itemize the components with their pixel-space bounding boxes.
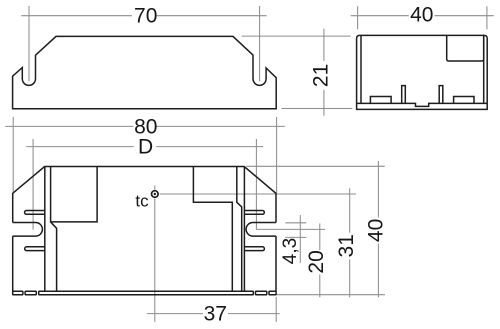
- svg-text:40: 40: [365, 219, 388, 242]
- svg-text:tc: tc: [135, 191, 149, 210]
- svg-text:21: 21: [310, 64, 333, 87]
- svg-text:70: 70: [134, 5, 157, 28]
- svg-text:31: 31: [335, 234, 358, 257]
- svg-text:4,3: 4,3: [280, 238, 301, 264]
- svg-text:37: 37: [204, 303, 227, 326]
- svg-text:40: 40: [410, 3, 433, 26]
- svg-text:D: D: [138, 136, 153, 159]
- svg-text:20: 20: [305, 250, 328, 273]
